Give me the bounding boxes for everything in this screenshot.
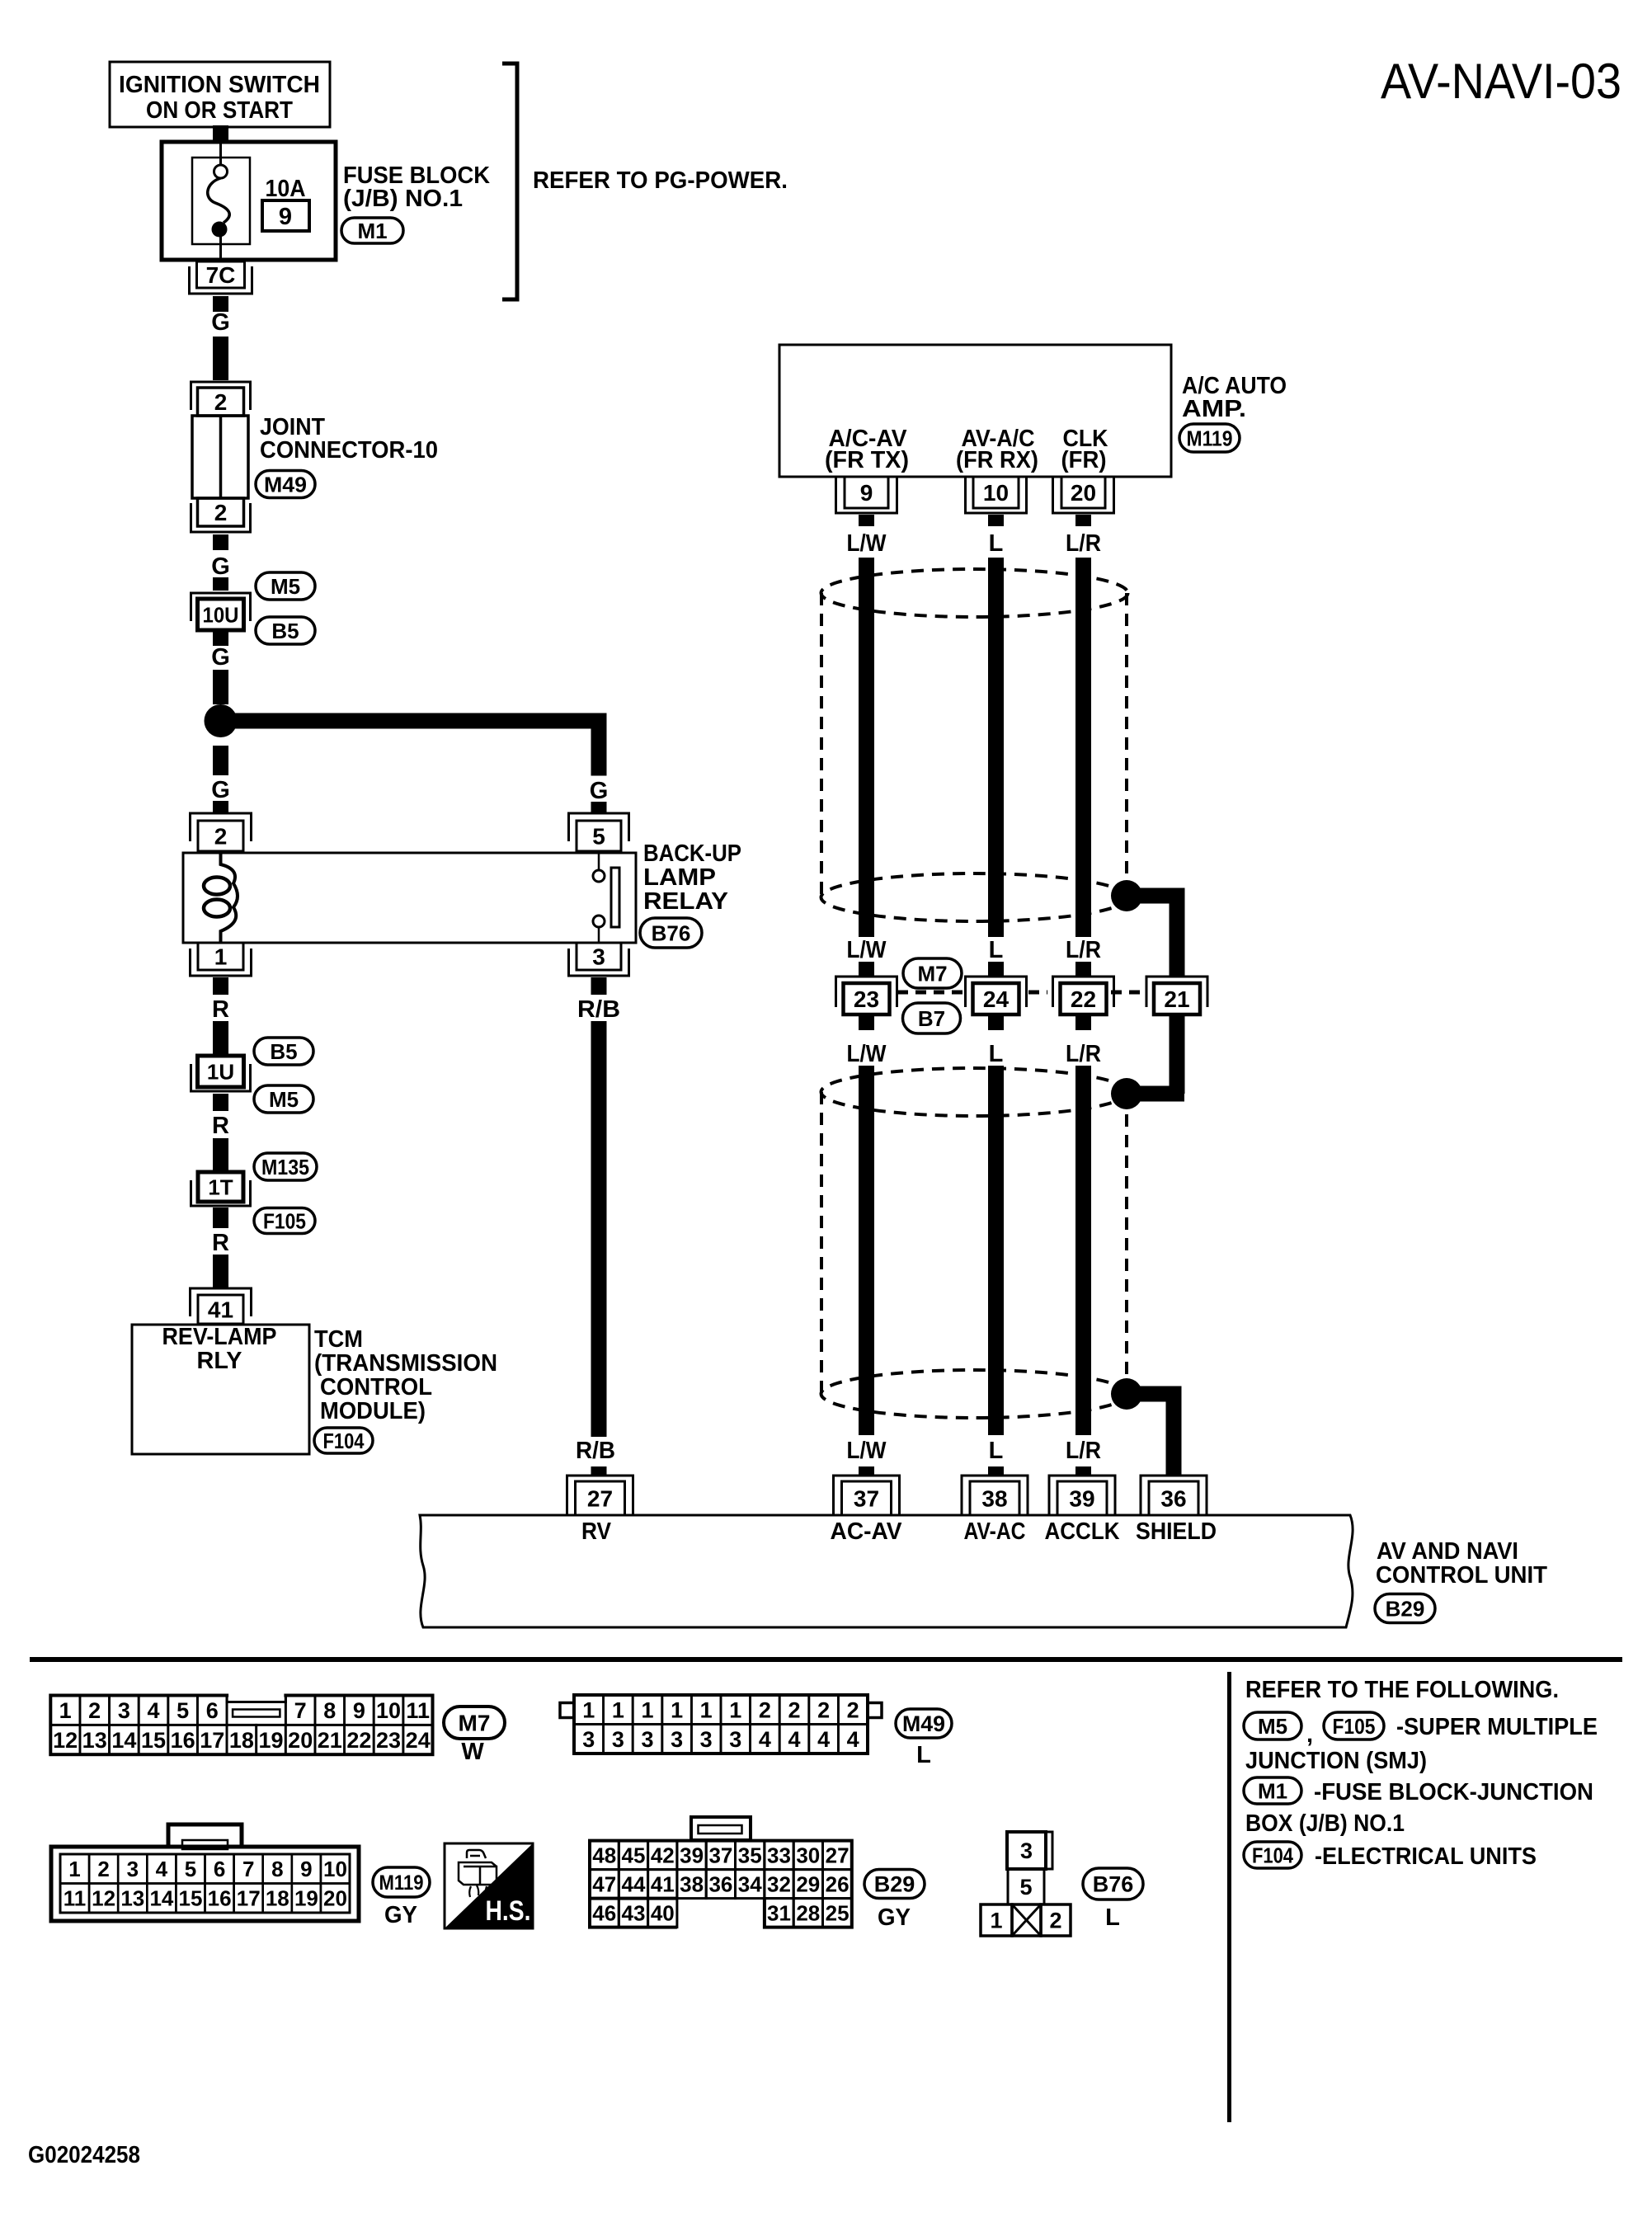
wire L bus upper (988, 558, 1004, 937)
connector B29 pinout 48-pin (590, 1841, 619, 1870)
svg-text:F105: F105 (263, 1208, 306, 1233)
svg-text:-ELECTRICAL UNITS: -ELECTRICAL UNITS (1315, 1843, 1537, 1870)
svg-text:5: 5 (176, 1698, 189, 1723)
svg-text:L: L (916, 1742, 931, 1768)
svg-text:4: 4 (156, 1857, 168, 1881)
joint connector-10 pin 2 top (191, 382, 251, 410)
svg-text:BOX (J/B) NO.1: BOX (J/B) NO.1 (1245, 1810, 1405, 1837)
amp pin 10 connector (973, 477, 1019, 508)
svg-text:6: 6 (206, 1698, 219, 1723)
wire G to joint connector (213, 337, 228, 380)
svg-text:BACK-UP: BACK-UP (643, 840, 741, 867)
svg-text:L: L (989, 1438, 1004, 1464)
svg-text:19: 19 (258, 1728, 283, 1753)
wire stub below SMJ (988, 1014, 1004, 1030)
svg-text:38: 38 (680, 1872, 704, 1897)
connector B29 oval (1375, 1594, 1435, 1623)
svg-text:16: 16 (171, 1728, 195, 1753)
svg-text:2: 2 (1049, 1909, 1061, 1933)
svg-text:19: 19 (294, 1886, 318, 1911)
svg-text:M1: M1 (1258, 1778, 1287, 1803)
svg-text:46: 46 (592, 1901, 616, 1926)
svg-text:3: 3 (592, 944, 605, 970)
svg-text:R/B: R/B (576, 1438, 615, 1464)
svg-text:1: 1 (990, 1909, 1002, 1933)
svg-text:F104: F104 (323, 1429, 365, 1453)
fuse 10A inner box (192, 158, 250, 244)
svg-text:B76: B76 (652, 920, 691, 945)
wire 7C to G (213, 296, 228, 312)
svg-text:1: 1 (582, 1698, 595, 1723)
connector M49 oval label (896, 1709, 952, 1738)
svg-text:12: 12 (53, 1728, 78, 1753)
svg-text:41: 41 (208, 1297, 233, 1323)
wire G to SMJ 10U (213, 577, 228, 591)
svg-text:29: 29 (796, 1872, 820, 1897)
refer column divider (1227, 1672, 1231, 2122)
svg-text:37: 37 (708, 1843, 732, 1868)
wire G to relay pin 2 (213, 801, 228, 813)
control unit pin 27 (567, 1476, 633, 1515)
junction node shield 1 (1111, 880, 1142, 911)
control unit pin 38 (962, 1476, 1028, 1515)
svg-text:L/R: L/R (1066, 1438, 1101, 1464)
svg-text:20: 20 (323, 1886, 347, 1911)
svg-text:8: 8 (271, 1857, 283, 1881)
svg-text:34: 34 (738, 1872, 762, 1897)
junction node shield 2 (1111, 1078, 1142, 1109)
wire G to pin 5 (591, 802, 607, 813)
connector M49 pinout (574, 1695, 604, 1725)
SMJ connector 10U (191, 593, 251, 621)
wire pin1 down (213, 977, 228, 995)
svg-text:13: 13 (82, 1728, 107, 1753)
wire L/W bus upper (859, 558, 874, 937)
wire relay pin3 down (591, 977, 607, 995)
connector B7 oval (903, 1003, 961, 1033)
svg-text:27: 27 (587, 1486, 613, 1512)
svg-text:10: 10 (323, 1857, 347, 1881)
svg-text:M7: M7 (917, 961, 947, 986)
connector M7 pinout 24-pin (50, 1696, 80, 1725)
svg-text:B29: B29 (1386, 1596, 1425, 1621)
svg-text:M49: M49 (902, 1711, 945, 1736)
relay pin 2 connector (191, 813, 252, 841)
svg-text:4: 4 (847, 1727, 859, 1752)
svg-text:18: 18 (266, 1886, 289, 1911)
svg-text:39: 39 (680, 1843, 704, 1868)
connector F105 oval (1324, 1712, 1384, 1739)
wire stub to SMJ (859, 962, 874, 977)
svg-text:2: 2 (214, 500, 228, 525)
svg-text:30: 30 (796, 1843, 820, 1868)
svg-text:AMP.: AMP. (1182, 396, 1246, 422)
svg-text:9: 9 (279, 204, 292, 230)
svg-text:9: 9 (860, 480, 873, 506)
svg-text:45: 45 (622, 1843, 646, 1868)
svg-text:L/W: L/W (847, 937, 887, 963)
wire 1U down (213, 1094, 228, 1111)
connector M119 oval label (373, 1867, 430, 1897)
svg-text:37: 37 (854, 1486, 879, 1512)
relay pin 5 connector (569, 813, 629, 841)
SMJ connector 22 (1053, 977, 1114, 1007)
wire pin stub (988, 515, 1004, 526)
wire junction to back-up lamp relay pin 5 (221, 713, 592, 729)
bracket refer to PG-POWER (502, 64, 517, 299)
svg-text:2: 2 (788, 1698, 800, 1723)
svg-text:L/R: L/R (1066, 937, 1101, 963)
svg-text:1: 1 (612, 1698, 624, 1723)
svg-text:MODULE): MODULE) (320, 1398, 426, 1424)
svg-text:7: 7 (242, 1857, 254, 1881)
svg-text:1: 1 (59, 1698, 72, 1723)
connector M119 pinout 20-pin (51, 1847, 359, 1921)
svg-text:43: 43 (622, 1901, 646, 1926)
fuse number 9 box (262, 200, 309, 231)
svg-text:10U: 10U (203, 602, 239, 627)
svg-text:3: 3 (1020, 1838, 1033, 1863)
amp pin 20 connector (1061, 477, 1105, 508)
svg-text:RLY: RLY (197, 1348, 242, 1374)
svg-text:27: 27 (826, 1843, 850, 1868)
svg-text:41: 41 (651, 1872, 675, 1897)
wire stub below SMJ (859, 1014, 874, 1030)
svg-text:6: 6 (214, 1857, 225, 1881)
svg-text:TCM: TCM (314, 1326, 363, 1353)
wire L bus lower (988, 1066, 1004, 1435)
svg-text:17: 17 (200, 1728, 224, 1753)
wire 21 to shield node 2 (1170, 1014, 1185, 1094)
connector M1 oval (1244, 1777, 1301, 1804)
svg-text:3: 3 (612, 1727, 624, 1752)
connector B5 oval (256, 617, 315, 644)
svg-text:RELAY: RELAY (643, 888, 728, 915)
svg-text:M5: M5 (269, 1087, 299, 1112)
svg-text:35: 35 (738, 1843, 762, 1868)
svg-text:5: 5 (1019, 1875, 1032, 1900)
svg-text:M1: M1 (357, 219, 387, 243)
wire stub below SMJ (1075, 1014, 1091, 1030)
back-up lamp relay box (183, 853, 636, 943)
svg-text:IGNITION SWITCH: IGNITION SWITCH (119, 72, 320, 98)
SMJ connector 24 (966, 977, 1027, 1007)
svg-text:16: 16 (208, 1886, 232, 1911)
svg-text:L/W: L/W (847, 530, 887, 557)
svg-text:GY: GY (384, 1902, 417, 1928)
svg-text:M49: M49 (264, 472, 307, 497)
svg-text:F104: F104 (1252, 1843, 1293, 1867)
SMJ connector 1T (198, 1172, 243, 1202)
svg-text:2: 2 (97, 1857, 109, 1881)
svg-text:4: 4 (147, 1698, 159, 1723)
fuse symbol (219, 144, 222, 165)
svg-text:REFER TO THE FOLLOWING.: REFER TO THE FOLLOWING. (1245, 1677, 1559, 1703)
wire shield node to 21 (1127, 888, 1177, 904)
wire stub to control unit (859, 1466, 874, 1476)
svg-text:B5: B5 (270, 1039, 297, 1064)
svg-text:3: 3 (127, 1857, 139, 1881)
svg-text:48: 48 (592, 1843, 616, 1868)
svg-text:12: 12 (92, 1886, 115, 1911)
relay pin 3 connector (577, 943, 621, 970)
svg-text:36: 36 (708, 1872, 732, 1897)
svg-text:GY: GY (878, 1904, 911, 1931)
joint connector-10 pin 2 bottom (198, 498, 244, 526)
svg-text:1: 1 (671, 1698, 683, 1723)
svg-text:L/R: L/R (1066, 1041, 1101, 1067)
svg-text:2: 2 (88, 1698, 101, 1723)
svg-text:21: 21 (1164, 986, 1189, 1012)
svg-text:4: 4 (759, 1727, 771, 1752)
svg-text:H.S.: H.S. (486, 1895, 531, 1927)
svg-text:AC-AV: AC-AV (831, 1518, 903, 1545)
wire pin stub (1075, 515, 1091, 526)
svg-text:2: 2 (847, 1698, 859, 1723)
svg-text:B7: B7 (918, 1006, 945, 1031)
connector M119 oval (1179, 424, 1240, 452)
junction node (205, 704, 238, 737)
svg-text:-FUSE BLOCK-JUNCTION: -FUSE BLOCK-JUNCTION (1314, 1779, 1593, 1805)
connector B76 oval label (1083, 1868, 1143, 1900)
svg-text:47: 47 (592, 1872, 616, 1897)
svg-text:39: 39 (1069, 1486, 1094, 1512)
svg-text:-SUPER MULTIPLE: -SUPER MULTIPLE (1396, 1714, 1598, 1740)
svg-text:3: 3 (729, 1727, 741, 1752)
svg-text:1: 1 (700, 1698, 713, 1723)
control unit pin 36 (1141, 1476, 1207, 1515)
svg-text:18: 18 (229, 1728, 254, 1753)
wire joint connector to G (213, 534, 228, 550)
TCM box (132, 1325, 309, 1454)
svg-text:23: 23 (376, 1728, 401, 1753)
svg-text:L: L (989, 937, 1004, 963)
connector F105 oval (254, 1208, 315, 1234)
wire R to 1U (213, 1021, 228, 1055)
svg-text:11: 11 (406, 1698, 430, 1723)
svg-text:26: 26 (826, 1872, 850, 1897)
svg-text:44: 44 (622, 1872, 646, 1897)
fuse block (J/B) NO.1 box (162, 142, 336, 260)
svg-text:9: 9 (300, 1857, 312, 1881)
svg-text:1: 1 (214, 944, 228, 970)
svg-text:REV-LAMP: REV-LAMP (162, 1324, 277, 1350)
svg-text:22: 22 (1071, 986, 1096, 1012)
svg-text:R: R (212, 996, 229, 1023)
svg-text:L: L (989, 530, 1004, 557)
dashed SMJ line (897, 991, 1143, 995)
svg-text:RV: RV (581, 1518, 612, 1545)
svg-text:CONNECTOR-10: CONNECTOR-10 (260, 437, 438, 464)
svg-text:22: 22 (346, 1728, 371, 1753)
svg-text:3: 3 (118, 1698, 130, 1723)
wire L/W bus lower (859, 1066, 874, 1435)
wire 10U down (213, 631, 228, 646)
svg-text:7C: 7C (206, 262, 236, 288)
wire pin stub (859, 515, 874, 526)
svg-text:R/B: R/B (577, 996, 620, 1023)
svg-text:G: G (590, 778, 609, 804)
svg-text:4: 4 (817, 1727, 830, 1752)
svg-text:1T: 1T (208, 1175, 233, 1199)
A/C auto amp box (779, 345, 1171, 477)
svg-text:20: 20 (288, 1728, 313, 1753)
svg-text:1U: 1U (207, 1059, 234, 1084)
amp pin 9 connector (845, 477, 888, 508)
svg-text:31: 31 (767, 1901, 791, 1926)
wire stub to SMJ (1075, 962, 1091, 977)
SMJ connector 1U (198, 1056, 244, 1087)
svg-text:L: L (989, 1041, 1004, 1067)
connector M5 oval (254, 1085, 313, 1113)
connector M7 oval label (444, 1707, 505, 1739)
svg-text:2: 2 (214, 824, 228, 850)
connector M49 oval (256, 471, 315, 498)
svg-text:28: 28 (796, 1901, 820, 1926)
H.S. hand symbol logo (445, 1843, 533, 1928)
svg-text:2: 2 (759, 1698, 771, 1723)
svg-text:ON OR START: ON OR START (146, 97, 293, 124)
svg-text:G: G (211, 309, 230, 336)
svg-text:21: 21 (318, 1728, 342, 1753)
wire R to TCM pin 41 (213, 1255, 228, 1288)
SMJ connector 21 (1146, 977, 1207, 1007)
connector B76 oval (640, 918, 702, 948)
connector B76 pinout (1007, 1832, 1046, 1869)
svg-text:13: 13 (120, 1886, 144, 1911)
svg-text:M135: M135 (261, 1155, 309, 1179)
wire L/R bus lower (1075, 1066, 1091, 1435)
shield cylinder 1 (821, 569, 1128, 617)
svg-text:36: 36 (1160, 1486, 1186, 1512)
svg-text:1: 1 (641, 1698, 653, 1723)
svg-text:M119: M119 (379, 1871, 424, 1895)
svg-text:3: 3 (671, 1727, 683, 1752)
connector M5 oval (256, 572, 315, 600)
svg-text:G: G (211, 777, 230, 803)
wire R to 1T (213, 1138, 228, 1172)
ignition switch box (110, 62, 330, 127)
svg-text:L: L (1105, 1904, 1120, 1931)
svg-text:AV-NAVI-03: AV-NAVI-03 (1381, 54, 1621, 109)
svg-text:R: R (212, 1113, 229, 1139)
svg-text:F105: F105 (1333, 1714, 1376, 1739)
svg-text:G: G (211, 553, 230, 580)
svg-text:B29: B29 (874, 1872, 915, 1897)
svg-text:REFER TO PG-POWER.: REFER TO PG-POWER. (533, 167, 788, 194)
svg-text:(FR TX): (FR TX) (825, 447, 909, 473)
svg-text:1: 1 (68, 1857, 80, 1881)
svg-text:10: 10 (983, 480, 1009, 506)
svg-text:17: 17 (237, 1886, 261, 1911)
connector F104 oval (314, 1428, 373, 1453)
svg-text:L/W: L/W (847, 1438, 887, 1464)
svg-text:JUNCTION (SMJ): JUNCTION (SMJ) (1245, 1748, 1427, 1774)
svg-text:LAMP: LAMP (643, 864, 716, 891)
svg-text:(FR): (FR) (1061, 447, 1107, 473)
svg-text:11: 11 (64, 1886, 87, 1911)
svg-text:25: 25 (826, 1901, 850, 1926)
svg-text:,: , (1306, 1721, 1313, 1748)
connector M135 oval (254, 1153, 317, 1180)
svg-text:20: 20 (1071, 480, 1096, 506)
svg-text:7: 7 (294, 1698, 307, 1723)
connector M5 oval (1244, 1712, 1301, 1739)
svg-text:G: G (211, 644, 230, 671)
svg-text:3: 3 (641, 1727, 653, 1752)
connector F104 oval (1244, 1842, 1301, 1868)
separator line (30, 1657, 1622, 1662)
svg-text:(FR RX): (FR RX) (956, 447, 1038, 473)
svg-text:23: 23 (854, 986, 879, 1012)
svg-text:AV-AC: AV-AC (964, 1518, 1026, 1545)
connector pin 7C (197, 261, 245, 288)
svg-text:AV AND NAVI: AV AND NAVI (1377, 1538, 1518, 1565)
wire stub to SMJ (988, 962, 1004, 977)
joint connector-10 body (192, 416, 248, 498)
svg-text:M7: M7 (459, 1711, 491, 1736)
connector B29 oval label (864, 1870, 925, 1899)
connector B5 oval (254, 1038, 313, 1065)
svg-text:3: 3 (582, 1727, 595, 1752)
svg-text:SHIELD: SHIELD (1136, 1518, 1217, 1545)
svg-text:8: 8 (323, 1698, 336, 1723)
control unit pin 39 (1049, 1476, 1115, 1515)
wire stub to control unit (1075, 1466, 1091, 1476)
relay contact (598, 853, 600, 870)
control unit pin 37 (834, 1476, 900, 1515)
svg-text:L/W: L/W (847, 1041, 887, 1067)
svg-text:24: 24 (983, 986, 1010, 1012)
svg-text:(TRANSMISSION: (TRANSMISSION (314, 1350, 497, 1377)
relay pin 1 connector (198, 943, 243, 970)
svg-text:33: 33 (767, 1843, 791, 1868)
wire shield node to pin 36 (1127, 1386, 1174, 1402)
TCM pin 41 connector (191, 1288, 252, 1316)
wire stub to control unit (988, 1466, 1004, 1476)
svg-text:L/R: L/R (1066, 530, 1101, 557)
wire R/B long to control unit (591, 1021, 607, 1437)
wire ignition to fuse block (213, 125, 228, 143)
svg-text:M5: M5 (1258, 1714, 1287, 1739)
svg-text:R: R (212, 1230, 229, 1256)
svg-text:M119: M119 (1187, 426, 1233, 450)
wire 1T down (213, 1208, 228, 1228)
svg-text:5: 5 (592, 824, 605, 850)
svg-text:42: 42 (651, 1843, 675, 1868)
shield cylinder 2 (821, 1068, 1128, 1116)
junction node shield 3 (1111, 1378, 1142, 1410)
svg-text:CONTROL UNIT: CONTROL UNIT (1376, 1562, 1547, 1589)
svg-text:15: 15 (141, 1728, 166, 1753)
wire G to junction (213, 670, 228, 704)
svg-text:B5: B5 (271, 619, 299, 643)
svg-text:14: 14 (111, 1728, 136, 1753)
relay coil (221, 853, 238, 943)
connector M7 oval (903, 958, 962, 988)
svg-text:15: 15 (179, 1886, 203, 1911)
svg-text:14: 14 (149, 1886, 173, 1911)
svg-text:CONTROL: CONTROL (320, 1374, 432, 1401)
wire junction down (213, 746, 228, 775)
svg-text:M5: M5 (271, 574, 300, 599)
AV and NAVI control unit box (420, 1515, 1353, 1627)
svg-text:1: 1 (729, 1698, 741, 1723)
svg-text:10: 10 (376, 1698, 401, 1723)
svg-text:B76: B76 (1093, 1872, 1134, 1897)
svg-text:5: 5 (185, 1857, 196, 1881)
SMJ connector 23 (836, 977, 897, 1007)
